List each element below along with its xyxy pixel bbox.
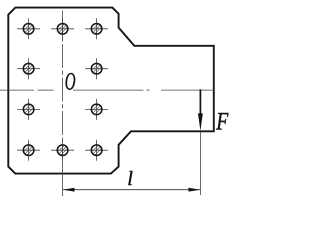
dimension arrowhead right <box>189 188 201 192</box>
svg-text:l: l <box>127 168 133 190</box>
hole R4C2 <box>51 140 74 161</box>
hole R1C2 <box>51 18 74 39</box>
horizontal centerline (x-axis through O) <box>0 89 214 91</box>
hole R1C1 <box>17 18 40 39</box>
hole R4C3 <box>85 140 108 161</box>
svg-text:O: O <box>65 66 76 95</box>
plate outline <box>8 8 214 174</box>
dimension line l <box>63 189 200 191</box>
force arrow F <box>198 89 203 131</box>
vertical centerline (y-axis through O, also left extension of dimension) <box>62 11 64 163</box>
hole R2C3 <box>85 58 108 79</box>
right extension line of dimension <box>199 132 201 195</box>
dimension arrowhead left <box>63 188 75 192</box>
hole R4C1 <box>17 140 40 161</box>
svg-text:F: F <box>215 107 228 136</box>
hole R3C3 <box>85 99 108 120</box>
hole R1C3 <box>85 18 108 39</box>
hole R3C1 <box>17 99 40 120</box>
hole R2C1 <box>17 58 40 79</box>
